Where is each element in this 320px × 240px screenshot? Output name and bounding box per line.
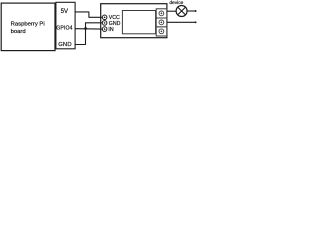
svg-text:GND: GND	[58, 42, 72, 48]
wire 5V to VCC	[75, 12, 102, 17]
wire GPIO4 to IN	[75, 28, 102, 30]
svg-text:board: board	[11, 29, 26, 35]
svg-text:GND: GND	[109, 21, 121, 27]
lamp device symbol	[176, 6, 187, 17]
pin GND	[102, 21, 107, 26]
svg-text:GPIO4: GPIO4	[56, 25, 72, 31]
GPIO pin header strip box	[56, 2, 75, 49]
terminal T3	[156, 27, 167, 36]
terminal T2	[156, 18, 167, 27]
terminal T1	[156, 9, 167, 18]
Raspberry Pi board box	[1, 3, 55, 51]
wire T2 to supply	[167, 21, 196, 23]
wire GND up and over to GND pin	[75, 23, 102, 45]
pin IN	[102, 27, 107, 32]
svg-text:IN: IN	[108, 27, 113, 33]
pin VCC	[102, 15, 107, 20]
wire T1 to lamp	[167, 10, 176, 12]
svg-text:device: device	[169, 0, 183, 6]
driver module box	[101, 4, 167, 38]
junction dot	[84, 27, 87, 30]
relay inner box	[122, 11, 155, 34]
wire lamp to supply	[187, 10, 195, 12]
svg-text:5V: 5V	[61, 8, 69, 15]
svg-text:Raspberry Pi: Raspberry Pi	[11, 21, 45, 27]
